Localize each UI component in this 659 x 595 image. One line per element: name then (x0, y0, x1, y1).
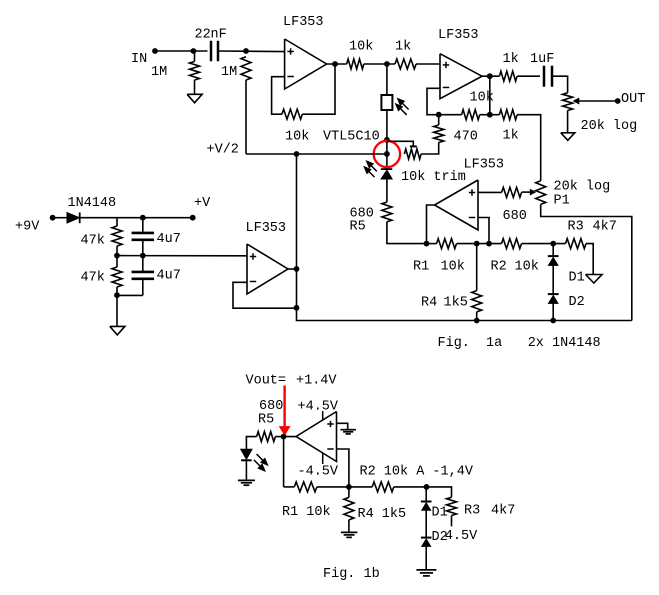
wire U1 inverting input feedback (272, 77, 285, 115)
resistor R1 10k fig1b (294, 482, 317, 492)
resistor 1M #1 (194, 51, 196, 62)
resistor 10k U1 feedback (282, 109, 302, 119)
resistor 1M #2 (241, 57, 251, 80)
wire pot to ground (567, 111, 569, 133)
wire U5 inverting input (337, 449, 349, 487)
wire R1 to R2 (457, 243, 502, 245)
resistor R5 680 (382, 202, 392, 222)
diode D1 fig1b (421, 501, 432, 503)
svg-text:4k7: 4k7 (491, 504, 515, 519)
svg-text:470: 470 (454, 130, 478, 145)
svg-text:1k: 1k (503, 52, 519, 67)
wire Vout column down (283, 437, 285, 487)
U5 negative supply pin (322, 453, 324, 464)
resistor R3 4k7 (566, 239, 587, 249)
node D1 top junction (550, 241, 556, 247)
wire LED to ground (245, 461, 247, 480)
wire 1k to C2 (517, 75, 540, 77)
node OUT terminal (615, 98, 621, 104)
wire U5 output (275, 436, 296, 438)
svg-text:10k: 10k (441, 260, 465, 275)
svg-text:1M: 1M (151, 65, 167, 80)
svg-text:1k5: 1k5 (444, 296, 468, 311)
node U2 feedback junction (436, 112, 442, 118)
ground under LED fig1b (238, 479, 255, 481)
wire U4 output (288, 268, 297, 270)
wire D1 to D2 fig1b (425, 510, 427, 537)
wire C2 to pot (552, 76, 568, 93)
LED emission arrows (369, 164, 377, 172)
photoresistor VTL5C10 LDR (381, 95, 392, 110)
wire bus to R1 (427, 243, 437, 245)
resistor 1k to P1 (499, 110, 517, 120)
potentiometer 20k log output (563, 93, 573, 111)
svg-text:47k: 47k (81, 234, 105, 249)
op-amp U1 LF353 input buffer (285, 39, 327, 89)
wire node A to D1 (425, 487, 427, 502)
resistor R4 1k5 (476, 244, 478, 291)
resistor 10k series (347, 59, 364, 69)
LED emission arrows fig1b (257, 454, 265, 462)
ground under R3 (586, 275, 603, 284)
svg-text:R5: R5 (350, 220, 366, 235)
svg-text:4.5V: 4.5V (445, 529, 478, 544)
node junction R(1M#1) (191, 48, 197, 54)
node U2 output (487, 73, 493, 79)
wire D2 to bottom bus (552, 304, 554, 321)
resistor 680 (502, 187, 522, 197)
LED fig1b (241, 449, 253, 459)
diode D1 (548, 255, 559, 257)
svg-text:10k: 10k (285, 130, 309, 145)
wire +9V to diode (53, 217, 67, 219)
svg-text:-4.5V: -4.5V (298, 465, 339, 480)
resistor 47k lower (116, 256, 118, 267)
wire +V/2 column (296, 154, 298, 269)
op-amp U5 comparator fig1b (296, 412, 336, 462)
svg-text:R4: R4 (421, 296, 437, 311)
ground U5 noninverting (340, 429, 356, 431)
svg-text:+V/2: +V/2 (207, 143, 239, 158)
wire D1 to D2 (552, 266, 554, 295)
svg-text:D1: D1 (569, 271, 585, 286)
resistor 10k U2 feedback (462, 110, 480, 120)
svg-text:IN: IN (131, 52, 147, 67)
capacitor 22nF (210, 41, 213, 62)
resistor 47k upper (116, 218, 118, 226)
wire R2 to R3 (522, 243, 566, 245)
svg-text:D1: D1 (432, 506, 448, 521)
ground supply divider (110, 326, 125, 335)
resistor R4 1k5 fig1b (348, 487, 350, 498)
capacitor 1uF (543, 66, 546, 87)
resistor 1k series (395, 59, 416, 69)
wire +V rail (80, 217, 193, 219)
wire 10k to 1k (364, 63, 395, 65)
svg-text:VTL5C10: VTL5C10 (323, 130, 380, 145)
svg-text:+4.5V: +4.5V (298, 400, 339, 415)
wire R3 to ground (586, 244, 593, 275)
svg-text:+9V: +9V (15, 220, 40, 235)
wire node to LED (386, 140, 388, 169)
svg-text:680: 680 (503, 209, 527, 224)
diode D2 fig1b (421, 537, 432, 539)
resistor R2 10k fig1b (372, 482, 394, 492)
ground under 1M#1 (187, 94, 202, 103)
wire P1 bottom to right rail (541, 204, 632, 320)
node IN terminal (152, 48, 158, 54)
svg-text:LF353: LF353 (464, 158, 505, 173)
resistor R1 10k (437, 239, 457, 249)
diode D2 (548, 293, 559, 295)
wire C1 to U1+ (218, 50, 285, 53)
ground under output pot (561, 133, 575, 141)
wire U2 output (482, 75, 500, 77)
svg-text:LF353: LF353 (246, 221, 287, 236)
svg-text:4u7: 4u7 (157, 232, 181, 247)
svg-text:+V: +V (194, 196, 211, 211)
red highlight circle (374, 141, 400, 167)
ground under R4 fig1b (341, 531, 358, 533)
node summing bus left (424, 241, 430, 247)
svg-text:R3: R3 (464, 504, 480, 519)
op-amp U2 LF353 (440, 54, 482, 99)
wire +V/2 rail (246, 153, 387, 155)
node output feedback junction (487, 112, 493, 118)
P1 wiper arrow (522, 191, 531, 193)
wire R1 to node (317, 486, 372, 488)
resistor 470 (434, 125, 444, 143)
node U1 output junction (332, 61, 338, 67)
wire U4 feedback (233, 282, 297, 308)
op-amp U3 LF353 rectifier (435, 180, 479, 230)
potentiometer P1 20k log (536, 181, 546, 205)
svg-text:Fig. 1b: Fig. 1b (323, 567, 380, 582)
svg-text:R2: R2 (491, 260, 507, 275)
node +V terminal (190, 215, 196, 221)
svg-text:Vout=: Vout= (246, 374, 287, 389)
node divider bottom junction (114, 292, 120, 298)
node C3 top junction (140, 215, 146, 221)
svg-text:+1.4V: +1.4V (296, 374, 337, 389)
svg-text:4k7: 4k7 (593, 220, 617, 235)
wire LDR branch upper (386, 64, 388, 95)
wire feedback to U1 output (302, 64, 335, 114)
node D2 bottom junction (550, 318, 556, 324)
svg-text:R3: R3 (568, 220, 584, 235)
node R4 junction fig1b (346, 484, 352, 490)
svg-text:R5: R5 (258, 413, 274, 428)
wire R2 to node A (394, 486, 427, 488)
trimmer wiper connection wire (387, 141, 413, 146)
wire U3 inverting input (478, 218, 489, 244)
node U3 inverting junction (486, 241, 492, 247)
wire bottom bus (297, 269, 632, 321)
trimmer wiper tap (410, 145, 417, 147)
svg-text:R2 10k A -1,4V: R2 10k A -1,4V (360, 465, 474, 480)
svg-text:1N4148: 1N4148 (68, 196, 117, 211)
wire U5 noninverting to ground (337, 423, 348, 429)
resistor 10k trim (404, 149, 421, 159)
capacitor 4u7 lower (142, 256, 144, 272)
LED VTL5C10 internal (381, 168, 392, 170)
wire 1k to P1 top (517, 115, 541, 181)
wire U2 output down (489, 76, 491, 115)
wire R5 to LED (246, 437, 256, 450)
node mid rail cap junction (140, 253, 146, 259)
wire supply mid rail to U4+ (117, 255, 247, 257)
red annotation arrow (283, 386, 285, 429)
wire D1 top (552, 244, 554, 257)
node R4 bottom junction (474, 318, 480, 324)
wire cap bottom to divider bottom (117, 294, 143, 296)
svg-text:1uF: 1uF (530, 52, 554, 67)
resistor R2 10k (502, 239, 522, 249)
svg-text:D2: D2 (569, 295, 585, 310)
wire feedback node to 10k (439, 114, 462, 116)
svg-text:R1: R1 (413, 260, 429, 275)
svg-text:Fig.: Fig. (438, 336, 470, 351)
wire R5 branch down (387, 222, 427, 244)
resistor R3 4k7 fig1b (447, 497, 457, 515)
svg-text:20k log: 20k log (554, 180, 611, 195)
node U4 feedback junction (294, 305, 300, 311)
svg-text:LF353: LF353 (438, 28, 479, 43)
wire divider to ground (116, 295, 118, 326)
U5 positive supply pin (322, 411, 324, 420)
node +9V terminal (50, 215, 56, 221)
svg-text:10k trim: 10k trim (401, 170, 466, 185)
wire node A to R3 (427, 487, 452, 497)
capacitor 4u7 upper (142, 218, 144, 233)
svg-text:10k: 10k (349, 40, 373, 55)
wire U3 noninverting input to P1 wiper (478, 191, 502, 193)
svg-text:10k: 10k (515, 260, 539, 275)
svg-text:R4 1k5: R4 1k5 (358, 507, 407, 522)
wire LED to R5 (386, 178, 388, 202)
svg-text:R1 10k: R1 10k (282, 505, 331, 520)
svg-text:4u7: 4u7 (157, 269, 181, 284)
node junction R(1M#2) (243, 48, 249, 54)
wire U3 output (427, 205, 435, 244)
wire bus to R1 fig1b (284, 486, 295, 488)
wire LDR to wiper node (386, 110, 388, 140)
node R4 top junction (474, 241, 480, 247)
node A fig1b (424, 484, 430, 490)
wire U1 output (327, 63, 347, 65)
ground under D2 fig1b (416, 569, 436, 571)
node trimmer wiper junction (384, 137, 390, 143)
svg-text:22: 22 (195, 28, 211, 43)
resistor 1k to C2 (499, 71, 517, 81)
node U5 output Vout (281, 434, 287, 440)
svg-text:1k: 1k (503, 129, 519, 144)
resistor R5 680 fig1b (257, 432, 276, 442)
diode 1N4148 supply (67, 212, 80, 223)
wiper arrow OUT (578, 100, 617, 102)
svg-text:LF353: LF353 (283, 15, 324, 30)
svg-text:nF: nF (211, 28, 227, 43)
svg-text:20k log: 20k log (581, 119, 638, 134)
wire 1k to U2+ (416, 63, 440, 65)
node U4 output junction (294, 266, 300, 272)
wire U2 inverting input (427, 88, 440, 114)
svg-text:47k: 47k (81, 271, 105, 286)
wire 470 to feedback node (438, 115, 440, 125)
node junction LDR branch (384, 61, 390, 67)
node +V/2 junction (294, 151, 300, 157)
svg-text:1k: 1k (395, 40, 411, 55)
wire 10k to output column (480, 114, 500, 116)
op-amp U4 LF353 rail splitter (247, 244, 288, 294)
svg-text:OUT: OUT (621, 92, 645, 107)
svg-text:1M: 1M (221, 65, 237, 80)
wire D2 to ground fig1b (425, 546, 427, 570)
svg-text:2x 1N4148: 2x 1N4148 (528, 336, 601, 351)
svg-text:P1: P1 (554, 194, 570, 209)
wire trim to 470 (421, 143, 439, 155)
wire IN to C1 (155, 50, 208, 52)
light arrows into LDR (400, 101, 408, 109)
node mid rail left junction (114, 253, 120, 259)
node control junction (384, 151, 390, 157)
svg-text:1a: 1a (486, 336, 502, 351)
